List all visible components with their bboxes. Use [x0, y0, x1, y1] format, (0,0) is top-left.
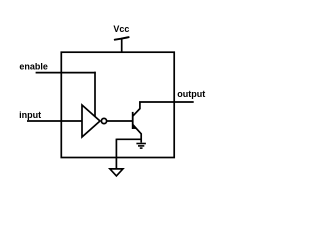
wire input: [27, 120, 82, 122]
wire inverter output to base: [107, 120, 133, 122]
svg-text:output: output: [177, 89, 205, 99]
inverter U1 triangle: [82, 105, 100, 137]
outer box (IC boundary): [61, 52, 174, 157]
transistor Q1 emitter arrowhead: [133, 124, 138, 129]
power symbol Vcc bar: [115, 37, 129, 40]
wire Vcc stem: [121, 39, 123, 52]
earth ground at emitter line 1: [136, 143, 146, 145]
earth ground at emitter line 2: [138, 145, 144, 147]
svg-text:input: input: [19, 110, 41, 120]
transistor Q1 collector + wire to output: [133, 102, 194, 116]
wire enable horizontal: [36, 72, 96, 74]
wire emitter to ground horizontal: [116, 138, 141, 140]
inverter U1 bubble: [101, 118, 106, 123]
transistor Q1 emitter: [133, 125, 142, 143]
svg-text:Vcc: Vcc: [113, 24, 129, 34]
wire enable vertical to inverter: [94, 72, 96, 117]
ground symbol triangle: [110, 169, 123, 176]
svg-text:enable: enable: [19, 61, 48, 71]
earth ground at emitter line 3: [140, 147, 143, 149]
transistor Q1 base bar: [132, 112, 134, 129]
wire down to ground symbol: [115, 139, 117, 169]
